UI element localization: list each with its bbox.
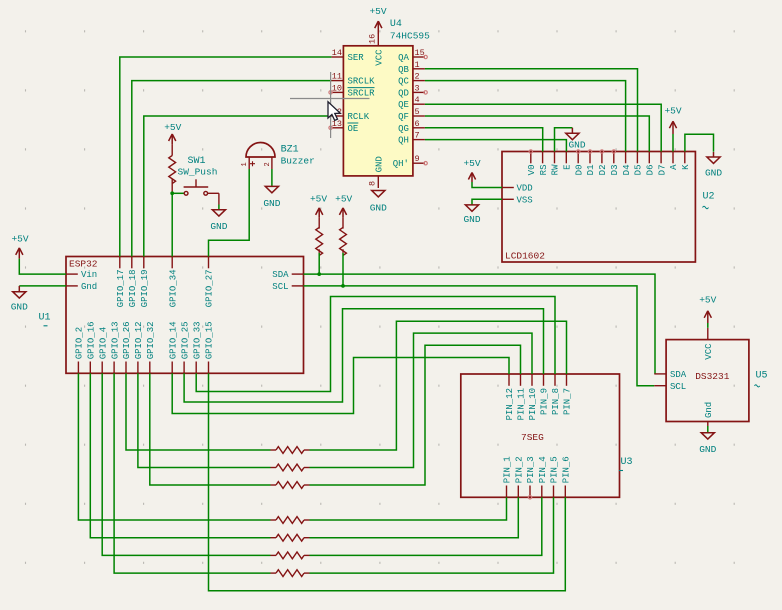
pin D1 of U2 (top) [589,152,591,164]
svg-text:GPIO_14: GPIO_14 [168,321,178,359]
svg-text:GND: GND [263,198,280,209]
svg-text:GPIO_12: GPIO_12 [134,321,144,359]
pin 2 of BZ1 [271,157,273,169]
pin RW of U2 (top) [554,152,556,164]
no-connect at U2 D0 [577,150,580,153]
svg-text:K: K [681,164,691,170]
svg-text:SDA: SDA [272,270,289,280]
ground GND at U4 [372,191,385,197]
display U3 7SEG body [461,374,620,497]
svg-text:GPIO_18: GPIO_18 [128,270,138,308]
svg-text:+5V: +5V [310,194,327,205]
pin VCC of U5 [707,328,709,340]
pin SCL of U1 [292,285,304,287]
wire K to GND [685,134,714,152]
pin D5 of U2 (top) [636,152,638,164]
pin PIN_6 of U3 (bottom) [564,486,566,498]
svg-text:+5V: +5V [463,158,480,169]
pin SCL of U5 [654,385,666,387]
wire RW to GND [555,128,573,152]
wire QG to RS [425,128,543,152]
pin 10 SRCLR of U4 [331,91,343,93]
pin VSS of U2 [502,198,514,200]
pin PIN_9 of U3 (top) [543,374,545,386]
svg-text:QA: QA [398,53,409,63]
svg-text:QE: QE [398,100,409,110]
svg-text:PIN_8: PIN_8 [551,388,561,415]
pin PIN_8 of U3 (top) [554,374,556,386]
wire Gnd to GND [19,285,66,287]
resistor R GPIO_4 [271,554,277,556]
pin 14 SER of U4 [331,56,343,58]
pin 11 SRCLK of U4 [331,80,343,82]
wire resistor to PIN_1 [310,497,507,520]
pin A of U2 (top) [672,152,674,164]
svg-text:4: 4 [415,95,420,105]
pin K of U2 (top) [684,152,686,164]
svg-text:Gnd: Gnd [81,282,97,292]
svg-text:6: 6 [415,119,420,129]
svg-text:OE: OE [348,124,359,134]
svg-text:+5V: +5V [699,295,716,306]
buzzer BZ1 body [246,143,275,158]
svg-text:SCL: SCL [670,382,686,392]
power +5V at SW1 [171,135,173,145]
ground GND at SW1 [212,210,225,216]
pin 3 QD of U4 [413,91,425,93]
svg-text:U1: U1 [39,313,51,324]
pin PIN_2 of U3 (bottom) [517,486,519,498]
wire GPIO_12 via resistor to PIN_10 [138,373,271,467]
pin SDA of U1 [292,273,304,275]
pin 6 QG of U4 [413,127,425,129]
pin PIN_7 of U3 (top) [566,374,568,386]
pin SDA of U5 [654,373,666,375]
pin 4 QE of U4 [413,103,425,105]
junction SDA pullup [317,272,321,276]
svg-text:U3: U3 [621,457,633,468]
pin Gnd of U5 [707,422,709,427]
ground GND at BZ1 [265,186,278,192]
pin 8 GND of U4 [377,176,379,188]
pin E of U2 (top) [565,152,567,164]
wire BZ1 pin2 to GND [271,169,273,186]
svg-text:16: 16 [368,34,378,44]
wire resistor to PIN_11 [310,345,521,485]
svg-text:SER: SER [348,53,365,63]
pin D6 of U2 (top) [648,152,650,164]
svg-text:PIN_11: PIN_11 [517,388,527,420]
pin 16 VCC of U4 [377,34,379,46]
lcd U2 LCD1602 body [502,152,695,263]
svg-text:PIN_2: PIN_2 [515,456,525,483]
svg-text:RS: RS [539,165,549,176]
svg-text:PIN_12: PIN_12 [505,388,515,420]
pin PIN_11 of U3 (top) [520,374,522,386]
wire GPIO_15 to PIN_6 [209,373,566,590]
wire GPIO_14 to PIN_12 [172,358,509,414]
svg-text:GPIO_33: GPIO_33 [192,321,202,359]
pin 15 QA of U4 [413,56,425,58]
svg-text:U4: U4 [390,19,402,30]
svg-text:13: 13 [332,119,342,129]
pullup resistor R on SCL [342,208,344,217]
mcu U1 ESP32 body [66,257,304,374]
svg-text:2: 2 [264,162,272,166]
pin D3 of U2 (top) [613,152,615,164]
svg-text:VDD: VDD [517,184,533,194]
wire QB to D5 [425,69,638,152]
pin GPIO_13 of U1 (bottom) [113,362,115,374]
crosshair [290,98,370,100]
svg-text:D1: D1 [586,165,596,176]
pin 1 QB of U4 [413,68,425,70]
svg-text:9: 9 [415,154,420,164]
svg-text:D6: D6 [646,165,656,176]
wire GPIO_18 to SRCLK [132,81,332,257]
svg-text:ESP32: ESP32 [69,259,98,270]
svg-text:VSS: VSS [517,195,533,205]
svg-text:GPIO_16: GPIO_16 [87,321,97,359]
pullup resistor R on SDA [318,208,320,217]
no-connect at U2 V0 [529,150,532,153]
svg-text:RW: RW [551,164,561,175]
svg-text:GPIO_15: GPIO_15 [205,321,215,359]
svg-text:8: 8 [368,181,378,186]
svg-text:V0: V0 [527,165,537,176]
svg-text:SW_Push: SW_Push [178,167,218,178]
svg-text:GND: GND [463,214,480,225]
rtc U5 DS3231 body [666,340,749,422]
svg-text:D0: D0 [574,165,584,176]
pin GPIO_34 of U1 (top) [171,257,173,269]
wire GPIO_26 via resistor to PIN_7 [126,373,271,450]
shift register U4 74HC595 body [343,46,413,176]
ground GND at U2 VSS [465,205,478,211]
pin 2 of SW1 to ground [208,192,219,194]
pin GPIO_12 of U1 (bottom) [137,362,139,374]
wire QH to E [425,140,567,152]
svg-text:QD: QD [398,88,409,98]
wire +5V to A [672,134,674,152]
svg-text:Buzzer: Buzzer [281,156,315,167]
svg-text:SDA: SDA [670,370,687,380]
svg-text:GPIO_13: GPIO_13 [110,321,120,359]
svg-text:+5V: +5V [369,6,386,17]
pin D0 of U2 (top) [577,152,579,164]
junction SCL pullup [341,284,345,288]
pin RS of U2 (top) [542,152,544,164]
svg-text:GND: GND [210,221,227,232]
svg-text:D5: D5 [634,165,644,176]
svg-text:GPIO_27: GPIO_27 [205,270,215,308]
wire resistor to PIN_2 [310,497,519,537]
svg-text:GND: GND [370,203,387,214]
svg-text:1: 1 [241,162,249,166]
svg-text:11: 11 [332,72,342,82]
svg-text:PIN_5: PIN_5 [550,456,560,483]
svg-text:A: A [669,164,679,170]
svg-text:QF: QF [398,112,409,122]
ground GND at U2 K [713,152,715,157]
svg-text:PIN_1: PIN_1 [503,456,513,483]
svg-text:E: E [563,165,573,170]
pin GPIO_19 of U1 (top) [143,257,145,269]
wire GPIO_13 via resistor to PIN_5 [114,373,270,573]
svg-text:+5V: +5V [335,194,352,205]
pin 5 QF of U4 [413,115,425,117]
wire QF to D6 [425,116,649,152]
resistor at SW1 [171,144,173,156]
wire +5V to VDD [472,182,502,188]
svg-text:PIN_10: PIN_10 [528,388,538,420]
svg-text:PIN_4: PIN_4 [538,456,548,483]
pin GPIO_2 of U1 (bottom) [77,362,79,374]
svg-text:7: 7 [415,131,420,141]
pin PIN_3 of U3 (bottom) [529,486,531,498]
svg-text:3: 3 [415,83,420,93]
resistor R GPIO_26 [271,449,277,451]
pin V0 of U2 (top) [530,152,532,164]
wire VSS to GND [472,199,502,205]
svg-text:VCC: VCC [704,343,714,360]
power +5V at U5 VCC [707,311,709,323]
wire SDA bus [304,274,656,374]
wire resistor to PIN_10 [310,333,533,467]
pin GPIO_17 of U1 (top) [119,257,121,269]
pin PIN_5 of U3 (bottom) [553,486,555,498]
pin GPIO_26 of U1 (bottom) [125,362,127,374]
wire resistor to PIN_4 [310,497,542,555]
resistor R GPIO_13 [271,572,277,574]
svg-text:1: 1 [415,60,420,70]
wire SCL bus [304,286,655,386]
svg-text:SCL: SCL [272,282,288,292]
wire junction to GPIO_34 [171,193,173,256]
wire GPIO_2 via resistor to PIN_1 [78,373,270,520]
wire Gnd to GND [707,426,709,433]
pin GPIO_15 of U1 (bottom) [208,362,210,374]
wire GPIO_27 to BZ1 pin1 [209,169,250,257]
svg-text:PIN_7: PIN_7 [563,388,573,415]
pin GPIO_16 of U1 (bottom) [89,362,91,374]
junction at SW1 node [170,191,174,195]
svg-text:PIN_6: PIN_6 [562,456,572,483]
wire resistor to PIN_7 [310,321,567,450]
svg-text:U2: U2 [703,192,715,203]
svg-text:DS3231: DS3231 [695,371,730,382]
svg-text:BZ1: BZ1 [281,145,299,156]
resistor R GPIO_2 [271,519,277,521]
svg-text:QB: QB [398,65,409,75]
power +5V at U2 A pin [672,122,674,134]
svg-text:QH: QH [398,136,409,146]
svg-text:GND: GND [568,140,585,151]
svg-text:14: 14 [332,48,342,58]
switch SW1 SW_Push symbol [184,191,188,195]
wire GPIO_33 to PIN_8 [196,297,555,392]
pin D2 of U2 (top) [601,152,603,164]
resistor R GPIO_12 [271,467,277,469]
wire GPIO_16 via resistor to PIN_2 [90,373,270,537]
svg-text:LCD1602: LCD1602 [505,250,545,261]
no-connect at U2 D1 [588,150,591,153]
pin 2 QC of U4 [413,80,425,82]
svg-text:U5: U5 [756,371,768,382]
svg-text:GND: GND [705,168,722,179]
pin Vin of U1 [66,273,78,275]
svg-text:5: 5 [415,107,420,117]
pin VDD of U2 [502,187,514,189]
svg-text:GPIO_19: GPIO_19 [140,270,150,308]
svg-text:GPIO_2: GPIO_2 [75,327,85,359]
pin D4 of U2 (top) [625,152,627,164]
pin GPIO_32 of U1 (bottom) [149,362,151,374]
svg-text:GPIO_25: GPIO_25 [180,321,190,359]
svg-text:+5V: +5V [11,234,28,245]
pin GPIO_25 of U1 (bottom) [183,362,185,374]
pin GPIO_14 of U1 (bottom) [171,362,173,374]
ground GND at U5 [701,433,714,439]
svg-text:10: 10 [332,83,342,93]
svg-text:PIN_3: PIN_3 [526,456,536,483]
svg-text:QH': QH' [393,159,409,169]
pin 7 QH of U4 [413,139,425,141]
svg-text:GPIO_4: GPIO_4 [98,327,108,359]
svg-text:GND: GND [375,156,385,172]
svg-text:+5V: +5V [164,122,181,133]
wire QE to D7 [425,104,661,151]
wire GPIO_25 to PIN_9 [184,309,543,402]
svg-text:D7: D7 [657,165,667,176]
no-connect at U3 PIN_3 [528,496,531,499]
power +5V at Vin [18,248,20,258]
pin 13 OE of U4 [331,127,343,129]
svg-text:74HC595: 74HC595 [390,31,430,42]
pin PIN_4 of U3 (bottom) [541,486,543,498]
wire junction to SW1 contact [172,192,184,194]
wire GPIO_32 via resistor to PIN_11 [150,373,271,485]
svg-text:SRCLR: SRCLR [348,88,376,98]
pin 1 (+) of BZ1 [248,157,250,169]
pin GPIO_18 of U1 (top) [131,257,133,269]
svg-text:GPIO_26: GPIO_26 [122,321,132,359]
svg-text:SRCLK: SRCLK [348,77,376,87]
svg-text:QG: QG [398,124,409,134]
svg-text:QC: QC [398,77,409,87]
wire GPIO_4 via resistor to PIN_4 [102,373,270,555]
pin PIN_1 of U3 (bottom) [506,486,508,498]
svg-text:7SEG: 7SEG [521,432,544,443]
pin GPIO_4 of U1 (bottom) [101,362,103,374]
pin D7 of U2 (top) [660,152,662,164]
wire GPIO_19 to RCLK [144,116,332,257]
svg-text:+5V: +5V [664,106,681,117]
svg-text:VCC: VCC [375,49,385,66]
pin Gnd of U1 [66,285,78,287]
mouse cursor [328,102,340,121]
svg-text:15: 15 [415,48,425,58]
svg-text:PIN_9: PIN_9 [540,388,550,415]
svg-text:GPIO_34: GPIO_34 [168,270,178,308]
svg-text:D4: D4 [622,165,632,176]
svg-text:Vin: Vin [81,270,97,280]
pin PIN_10 of U3 (top) [531,374,533,386]
svg-text:D3: D3 [610,165,620,176]
resistor R GPIO_16 [271,537,277,539]
no-connect at U2 D2 [600,150,603,153]
svg-text:SW1: SW1 [188,156,206,167]
power +5V at U2 VDD [471,173,473,182]
pin GPIO_33 of U1 (bottom) [195,362,197,374]
wire resistor to PIN_5 [310,497,554,573]
svg-text:RCLK: RCLK [348,112,370,122]
pin 9 QH' of U4 [413,162,425,164]
power +5V at U4 VCC [377,22,379,34]
svg-text:GPIO_17: GPIO_17 [116,270,126,308]
svg-text:GND: GND [699,444,716,455]
pin GPIO_27 of U1 (top) [208,257,210,269]
ground GND above U2 RW [571,128,573,134]
resistor R GPIO_32 [271,484,277,486]
svg-text:Gnd: Gnd [704,402,714,418]
svg-text:2: 2 [415,72,420,82]
no-connect at U2 D3 [612,150,615,153]
svg-text:D2: D2 [598,165,608,176]
pin 12 RCLK of U4 [331,115,343,117]
svg-text:GND: GND [11,302,28,313]
svg-text:GPIO_32: GPIO_32 [146,321,156,359]
ground GND at U1 [18,286,20,292]
wire +5V to Vin [19,259,66,275]
pin PIN_12 of U3 (top) [508,374,510,386]
wire QC to D4 [425,81,626,152]
wire GPIO_17 to SER [120,57,332,257]
